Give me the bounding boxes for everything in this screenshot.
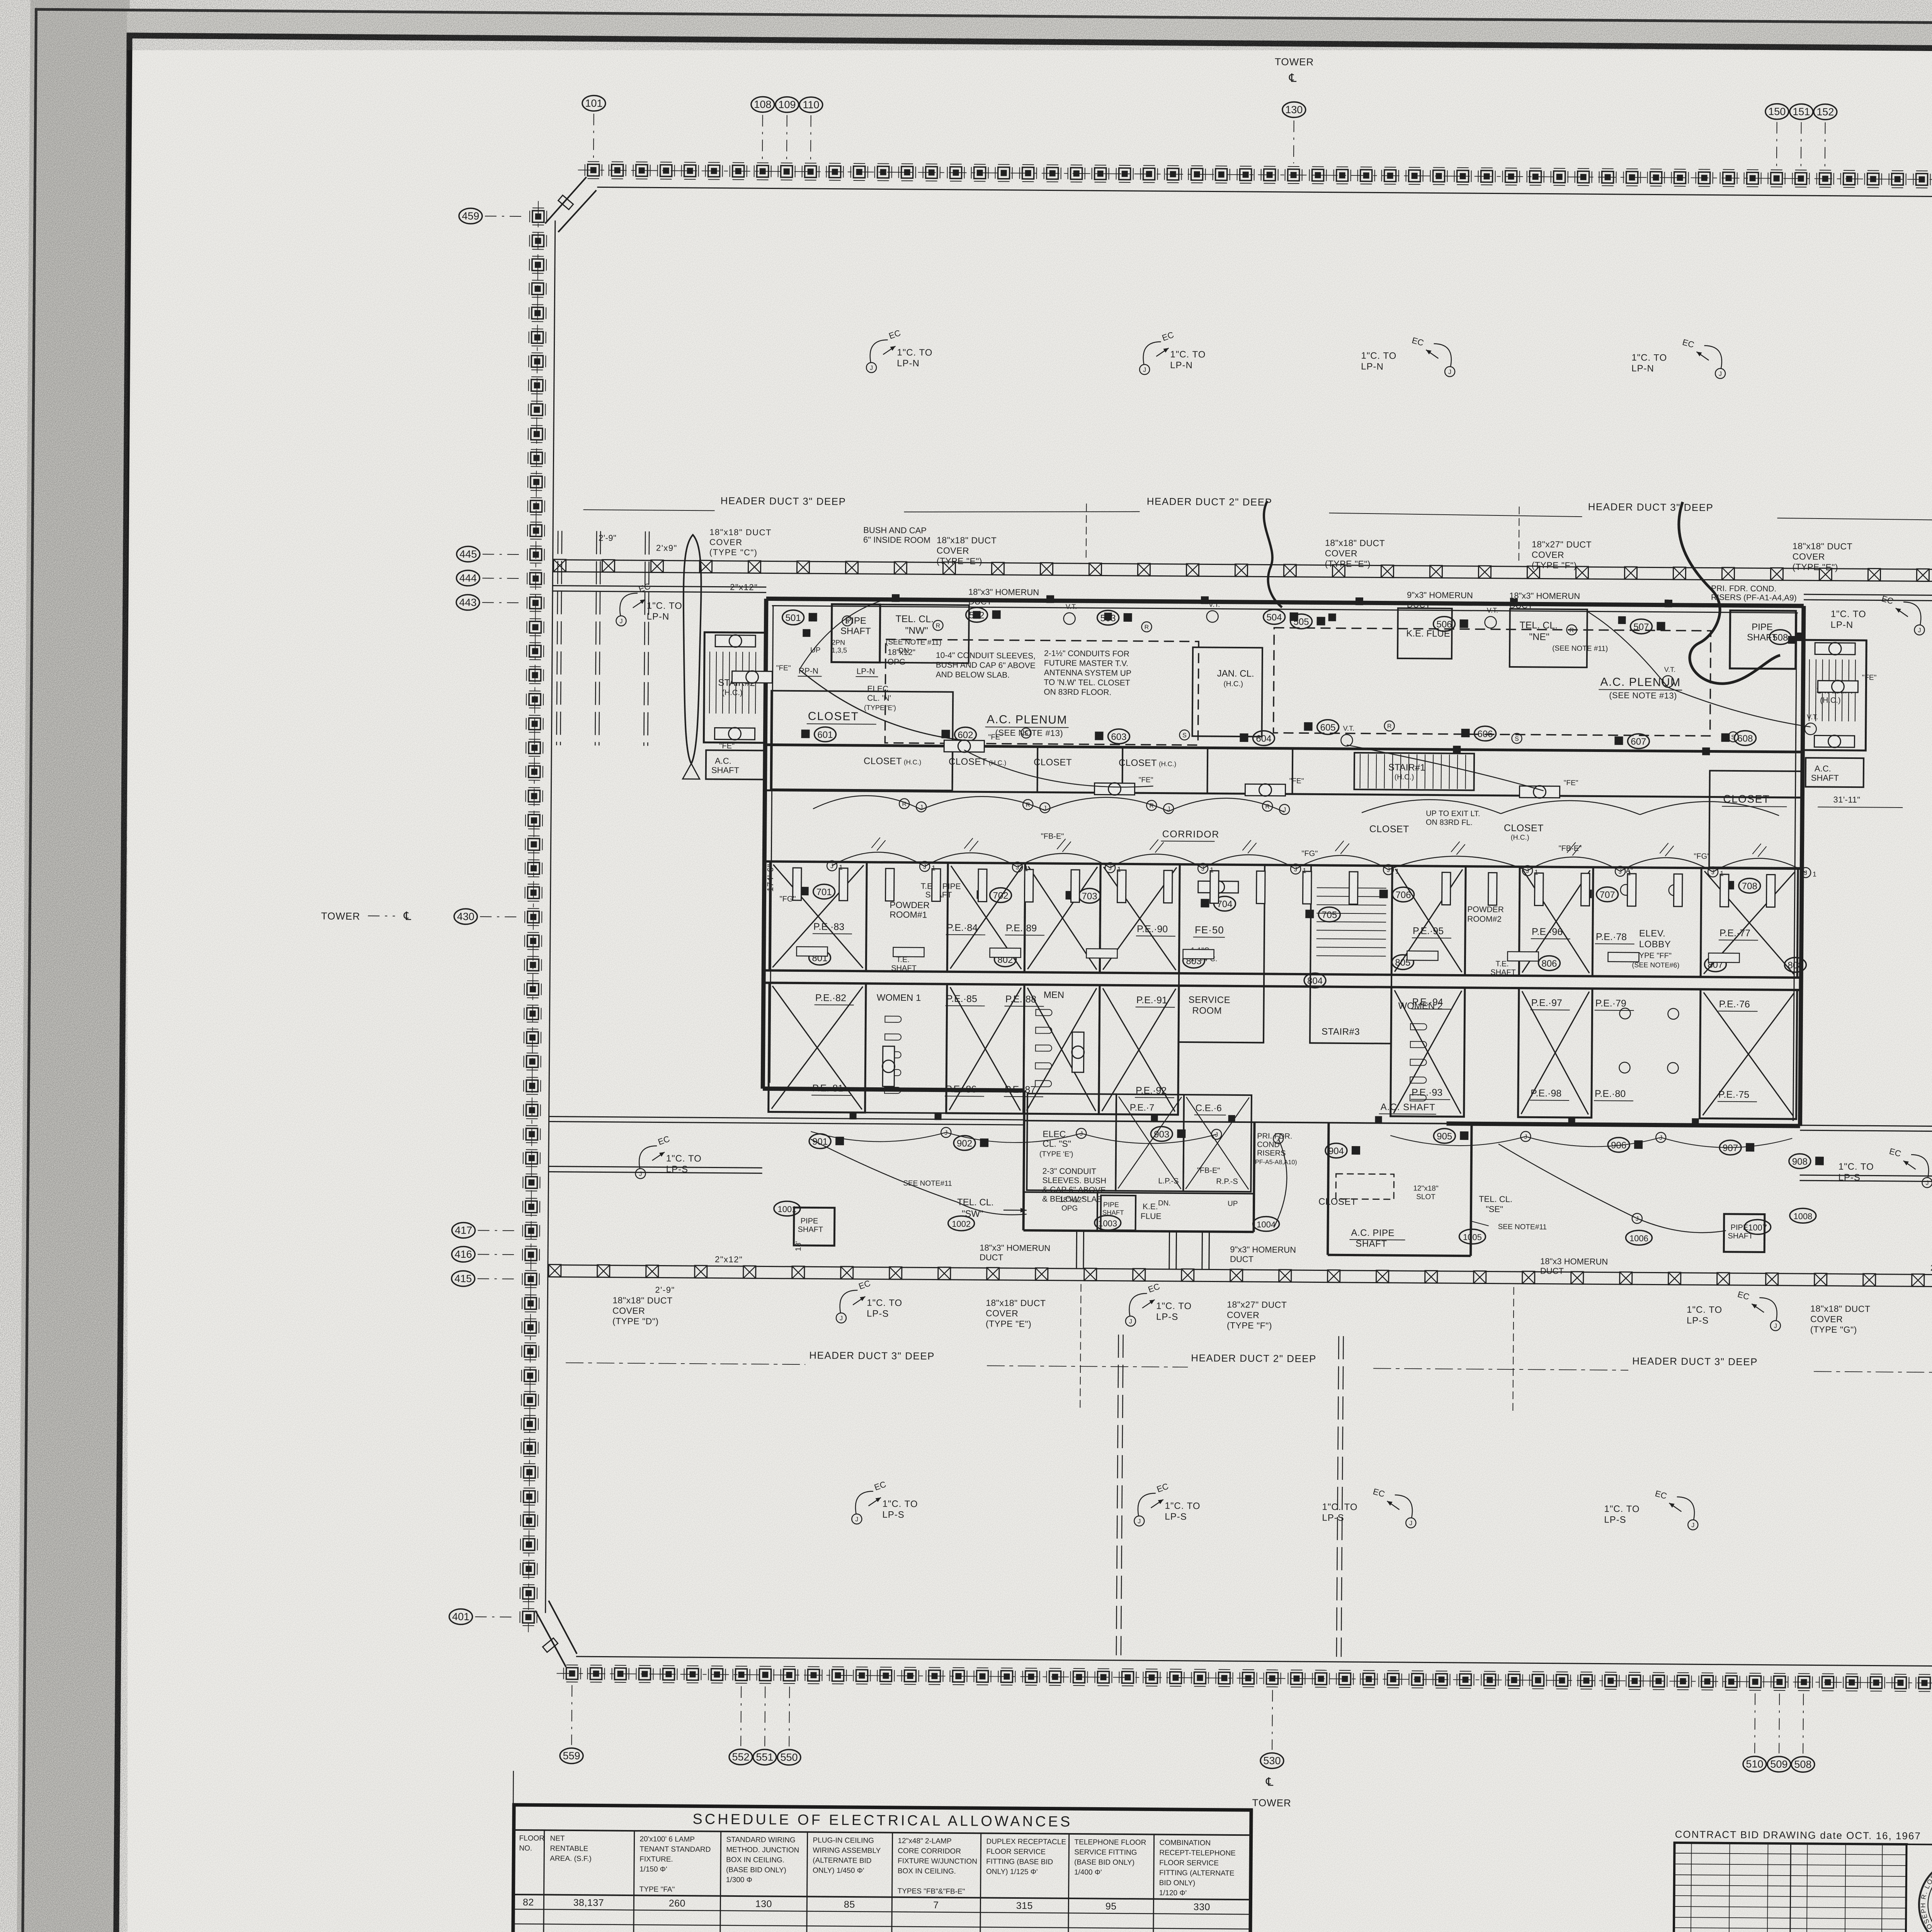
duct cover labels south [612,1295,1932,1336]
perimeter columns north face [585,162,1932,189]
grid bubble 430 with tower centerline [480,916,522,917]
professional engineer stamp [1906,1844,1932,1932]
core outer walls [763,599,1804,1126]
conduit notes south row [852,1479,1698,1530]
core interior band walls [764,745,1803,990]
AC plenum east dashed outline [1044,626,1711,736]
revisions block grid [1673,1843,1906,1932]
grid bubble 530 with tower centerline [1272,1690,1272,1750]
tv conduit heavy squiggle [1678,502,1781,684]
core wall bubbles 500 series [782,606,1804,645]
north header duct [553,560,1932,582]
elevator labels row B [811,1083,1757,1102]
pipe shaft room NW [832,604,880,663]
KE flue room [1398,608,1452,659]
service room [1179,864,1265,1043]
conduit sleeves note [1042,1167,1106,1204]
closet row partitions [863,745,1803,868]
west lower ducts [548,1117,1023,1298]
powder room 2 [1465,866,1520,976]
east lower ducts [1799,1125,1932,1304]
scanner margin top [127,9,1932,54]
homerun duct labels north [968,579,1797,612]
east wing risers [1803,539,1932,755]
perimeter columns west face [520,208,547,1626]
up to exit light note [1426,809,1480,827]
elevator lobby [1619,867,1680,1073]
building chamfer corner bottom-left [535,1600,577,1667]
closet east large [1709,770,1803,868]
elevator bank row A shafts [769,862,1798,978]
wiring arcs lower extension [810,1130,1727,1233]
pipe shaft room NE [1730,611,1796,669]
core lower extension walls [1023,1090,1472,1256]
heavy riser squiggle west [1263,501,1282,607]
vertical risers center-south [1116,1335,1344,1657]
elec closet S and PE7 CE6 [1027,1094,1252,1192]
elevator labels row mid [815,992,1758,1011]
core wall fixture boxes [850,594,1702,1125]
tel closet NW [880,604,969,663]
schedule of electrical allowances table [512,1771,1251,1932]
column bubbles west [316,207,527,1625]
TE shaft labels [891,882,1516,977]
closet extension right [1318,1173,1439,1249]
east stair block [1803,640,1867,787]
scanner margin left [16,0,130,1932]
core wall bubbles 700 series [800,872,1760,925]
AC shaft label core [1379,1102,1436,1114]
pri fdr cond risers note [1253,1132,1297,1166]
south header duct labels [565,1281,1932,1414]
grid bubble 130 with tower centerline [1293,121,1294,163]
column bubbles south [560,1685,1932,1814]
south header duct [548,1265,1932,1287]
wiring arcs plenum [799,598,1811,793]
wiring arcs row B [811,1126,1792,1148]
core wall bubbles 900 series [809,1124,1824,1168]
homerun duct labels south [794,1229,1608,1276]
building face inner lines [528,170,1932,1684]
closet west large [771,691,953,791]
west stair block [704,632,767,779]
north header duct labels [583,492,1932,568]
stair 3 [1310,865,1392,1043]
conduit notes north row [866,328,1726,379]
core wall bubbles 1000 series [774,1201,1816,1247]
women toilet 2 [1391,987,1465,1117]
jan closet [1192,647,1263,736]
plenum band extra annotations [797,610,1796,756]
wiring arcs closet row [813,795,1779,818]
pipe shaft and KE flue row [1059,1195,1238,1231]
conduit notes inner ring [611,581,1932,1332]
building chamfer corner top-left [545,177,597,232]
south pipe shaft east [1724,1214,1765,1252]
scan noise margins [0,0,128,1932]
west wing risers and duct loop [551,526,772,780]
tel closet NE [1510,609,1608,668]
AC plenum west dashed outline [885,639,1199,745]
elevator labels row A [813,921,1758,945]
core wall bubbles 600 series [801,716,1756,749]
corridor fixtures [778,830,1818,1179]
perimeter columns south face [563,1665,1932,1692]
tel closet SW [903,1179,1027,1219]
plenum fixtures [731,597,1877,801]
wiring arcs corridor [832,837,1806,873]
core wall bubbles 800 series [809,950,1806,991]
column bubbles north [582,51,1932,168]
men toilet [1024,985,1100,1114]
tel closet SE [1471,1194,1547,1231]
bush and cap note [863,525,930,545]
powder room 1 [866,862,948,971]
stair 1 hatched [1354,753,1475,790]
elevator bank row B shafts [769,983,1797,1119]
duct cover labels north [598,532,1932,583]
women toilet 1 [865,983,947,1113]
south pipe shaft west [794,1207,835,1246]
